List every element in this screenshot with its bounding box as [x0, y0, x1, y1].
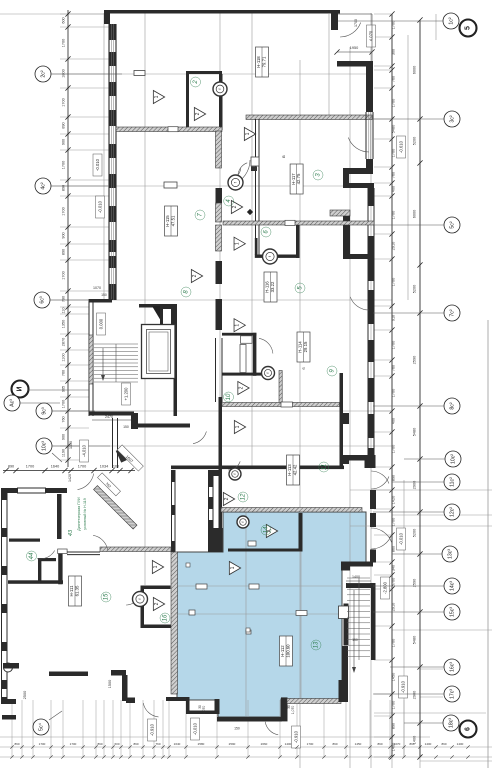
- svg-text:-2.800: -2.800: [382, 581, 387, 594]
- svg-text:47.51: 47.51: [171, 215, 176, 226]
- svg-text:42.42: 42.42: [293, 464, 298, 475]
- svg-text:1700: 1700: [26, 465, 34, 469]
- svg-text:1400: 1400: [457, 742, 464, 746]
- svg-text:-0.910: -0.910: [293, 730, 298, 743]
- svg-text:890: 890: [133, 742, 138, 746]
- svg-text:890: 890: [332, 742, 337, 746]
- svg-text:Н-115: Н-115: [165, 215, 170, 227]
- svg-text:29.15: 29.15: [303, 341, 308, 352]
- svg-text:890: 890: [409, 742, 414, 746]
- svg-text:150: 150: [234, 727, 240, 731]
- svg-text:Ac³: Ac³: [10, 399, 16, 407]
- svg-text:760: 760: [62, 370, 66, 376]
- svg-text:6000: 6000: [413, 66, 417, 74]
- svg-text:5: 5: [465, 26, 472, 30]
- svg-text:5c²: 5c²: [450, 221, 456, 228]
- svg-text:100.60: 100.60: [286, 644, 291, 658]
- svg-text:5200: 5200: [413, 285, 417, 293]
- svg-text:400: 400: [392, 418, 396, 424]
- svg-text:1700: 1700: [392, 278, 396, 286]
- svg-text:1700: 1700: [62, 98, 66, 106]
- svg-text:Н-117: Н-117: [291, 173, 296, 185]
- svg-text:14: 14: [264, 526, 270, 533]
- svg-text:12c²: 12c²: [450, 507, 456, 517]
- svg-text:1420: 1420: [392, 496, 396, 504]
- svg-text:890: 890: [392, 475, 396, 481]
- svg-text:-0.010: -0.010: [95, 158, 100, 171]
- svg-text:2660: 2660: [261, 742, 268, 746]
- svg-text:2590: 2590: [413, 356, 417, 364]
- svg-text:150: 150: [123, 425, 129, 429]
- svg-text:14c³: 14c³: [450, 581, 456, 591]
- svg-text:Н-112: Н-112: [280, 645, 285, 657]
- svg-text:16c³: 16c³: [450, 662, 456, 672]
- svg-text:16: 16: [163, 614, 169, 621]
- svg-text:61.35: 61.35: [75, 585, 80, 596]
- svg-text:1700: 1700: [392, 211, 396, 219]
- svg-text:5200: 5200: [413, 137, 417, 145]
- svg-text:1450: 1450: [392, 673, 396, 681]
- svg-text:2910: 2910: [392, 242, 396, 250]
- svg-text:1700: 1700: [392, 701, 396, 709]
- svg-text:9c³: 9c³: [42, 407, 48, 414]
- svg-text:10: 10: [226, 393, 232, 400]
- svg-text:-0.910: -0.910: [400, 680, 405, 693]
- svg-text:-0.010: -0.010: [398, 532, 403, 545]
- svg-text:1: 1: [235, 425, 241, 428]
- svg-text:10c³: 10c³: [42, 441, 48, 451]
- svg-text:1640: 1640: [174, 742, 181, 746]
- svg-text:760: 760: [155, 742, 160, 746]
- svg-text:150: 150: [352, 638, 358, 642]
- svg-text:890: 890: [8, 465, 14, 469]
- svg-text:-0.910: -0.910: [149, 723, 154, 736]
- svg-text:И: И: [17, 386, 24, 391]
- svg-text:10c²: 10c²: [451, 454, 457, 464]
- svg-text:1700: 1700: [392, 341, 396, 349]
- svg-text:5480: 5480: [413, 428, 417, 436]
- svg-text:760: 760: [392, 76, 396, 82]
- svg-text:300: 300: [392, 49, 396, 55]
- svg-text:1,070: 1,070: [291, 706, 295, 715]
- svg-text:1400: 1400: [425, 742, 432, 746]
- svg-text:900: 900: [62, 434, 66, 440]
- svg-text:1,070: 1,070: [202, 706, 206, 715]
- svg-text:6000: 6000: [413, 210, 417, 218]
- svg-text:150: 150: [101, 293, 107, 297]
- svg-text:1350: 1350: [62, 320, 66, 328]
- svg-text:1450: 1450: [355, 742, 362, 746]
- svg-text:6c³: 6c³: [40, 296, 46, 303]
- svg-text:3c²: 3c²: [450, 115, 456, 122]
- svg-text:5700: 5700: [392, 578, 396, 586]
- svg-text:1950: 1950: [350, 46, 358, 50]
- svg-text:1700: 1700: [78, 465, 86, 469]
- svg-text:2900: 2900: [413, 691, 417, 699]
- svg-text:1800: 1800: [62, 69, 66, 77]
- svg-text:1: 1: [154, 95, 160, 98]
- svg-text:110: 110: [62, 307, 66, 313]
- svg-text:2590: 2590: [229, 742, 236, 746]
- svg-text:910: 910: [392, 315, 396, 321]
- svg-text:2: 2: [192, 274, 198, 277]
- svg-text:2: 2: [232, 205, 238, 208]
- svg-text:+1.200: +1.200: [123, 387, 128, 401]
- svg-text:400: 400: [392, 186, 396, 192]
- svg-text:1400: 1400: [285, 742, 292, 746]
- svg-text:1190: 1190: [62, 449, 66, 457]
- svg-text:-0,010: -0,010: [192, 722, 197, 735]
- svg-text:79.71: 79.71: [262, 56, 267, 67]
- svg-text:1070: 1070: [93, 286, 101, 290]
- svg-text:-0.610: -0.610: [398, 140, 403, 153]
- svg-text:1640: 1640: [51, 465, 59, 469]
- svg-text:1700: 1700: [392, 445, 396, 453]
- svg-text:5c⁴: 5c⁴: [39, 723, 45, 731]
- svg-text:1700: 1700: [354, 19, 358, 27]
- svg-text:2500: 2500: [23, 691, 27, 699]
- svg-text:5480: 5480: [413, 636, 417, 644]
- svg-text:2910: 2910: [392, 603, 396, 611]
- svg-text:2: 2: [193, 80, 199, 85]
- svg-text:890: 890: [62, 122, 66, 128]
- svg-text:1500: 1500: [108, 680, 112, 688]
- svg-text:6: 6: [465, 727, 472, 731]
- svg-text:5480: 5480: [392, 125, 396, 133]
- svg-text:1: 1: [245, 132, 251, 135]
- svg-text:13: 13: [314, 641, 320, 648]
- svg-text:1700: 1700: [62, 39, 66, 47]
- svg-text:890: 890: [392, 723, 396, 729]
- svg-text:1: 1: [235, 324, 241, 327]
- svg-text:1700: 1700: [70, 742, 77, 746]
- svg-text:1700: 1700: [62, 271, 66, 279]
- svg-text:900: 900: [62, 232, 66, 238]
- svg-text:760: 760: [62, 416, 66, 422]
- svg-text:1: 1: [153, 565, 159, 568]
- svg-text:4.070: 4.070: [368, 30, 373, 41]
- svg-text:1034: 1034: [100, 465, 108, 469]
- svg-text:-4,010: -4,010: [81, 444, 86, 457]
- svg-text:1700: 1700: [392, 149, 396, 157]
- svg-text:890: 890: [377, 742, 382, 746]
- svg-text:1700: 1700: [62, 400, 66, 408]
- svg-text:2: 2: [195, 112, 201, 115]
- svg-text:890: 890: [14, 742, 19, 746]
- svg-text:1c²: 1c²: [449, 17, 455, 24]
- svg-text:790: 790: [62, 296, 66, 302]
- svg-text:17c³: 17c³: [450, 689, 456, 699]
- svg-text:760: 760: [392, 172, 396, 178]
- svg-text:Н-114: Н-114: [298, 341, 303, 353]
- svg-text:44: 44: [29, 552, 35, 559]
- svg-text:1100: 1100: [62, 353, 66, 361]
- svg-text:890: 890: [97, 742, 102, 746]
- svg-text:11: 11: [321, 464, 327, 470]
- svg-text:15: 15: [104, 593, 110, 600]
- svg-text:1700: 1700: [392, 99, 396, 107]
- svg-text:2580: 2580: [198, 742, 205, 746]
- svg-text:0.000: 0.000: [98, 318, 103, 329]
- svg-text:1400: 1400: [352, 575, 360, 579]
- svg-text:2c²: 2c²: [41, 70, 47, 77]
- svg-text:7c²: 7c²: [450, 309, 456, 316]
- svg-text:условный № Н-119: условный № Н-119: [83, 498, 87, 530]
- svg-text:2470: 2470: [105, 415, 113, 419]
- svg-text:43: 43: [68, 529, 74, 536]
- svg-text:1700: 1700: [392, 21, 396, 29]
- svg-text:760: 760: [392, 365, 396, 371]
- svg-text:1420: 1420: [68, 474, 72, 482]
- svg-text:1700: 1700: [392, 389, 396, 397]
- svg-text:1700: 1700: [307, 742, 314, 746]
- svg-text:5200: 5200: [413, 529, 417, 537]
- svg-text:Н-118: Н-118: [256, 56, 261, 68]
- svg-text:42.75: 42.75: [296, 173, 301, 184]
- svg-text:18c³: 18c³: [449, 718, 455, 728]
- svg-text:15c³: 15c³: [450, 607, 456, 617]
- svg-text:33.22: 33.22: [270, 281, 275, 292]
- svg-text:12: 12: [241, 493, 247, 500]
- svg-text:1700: 1700: [62, 161, 66, 169]
- svg-text:1070: 1070: [394, 742, 401, 746]
- svg-text:4c²: 4c²: [41, 182, 47, 189]
- svg-text:1700: 1700: [392, 518, 396, 526]
- svg-text:1700: 1700: [62, 207, 66, 215]
- svg-text:Н-111: Н-111: [69, 585, 74, 597]
- svg-text:11c²: 11c²: [450, 477, 456, 487]
- svg-text:340: 340: [392, 565, 396, 571]
- svg-text:1700: 1700: [392, 639, 396, 647]
- svg-text:600: 600: [62, 17, 66, 23]
- svg-text:890: 890: [441, 742, 446, 746]
- svg-text:1350: 1350: [69, 441, 73, 449]
- svg-text:-0.010: -0.010: [97, 200, 102, 213]
- svg-text:8c²: 8c²: [450, 402, 456, 409]
- svg-text:890: 890: [62, 249, 66, 255]
- svg-text:160: 160: [113, 465, 119, 469]
- svg-text:2: 2: [224, 497, 230, 500]
- svg-text:1: 1: [230, 566, 236, 569]
- svg-text:13c³: 13c³: [448, 549, 454, 559]
- svg-text:2: 2: [154, 602, 160, 605]
- svg-text:900: 900: [62, 139, 66, 145]
- svg-text:Н-113: Н-113: [287, 464, 292, 476]
- svg-text:1700: 1700: [39, 742, 46, 746]
- svg-text:965: 965: [62, 386, 66, 392]
- svg-text:1: 1: [235, 242, 241, 245]
- svg-text:Н-116: Н-116: [265, 281, 270, 293]
- svg-text:600: 600: [114, 742, 119, 746]
- svg-text:2: 2: [239, 386, 245, 389]
- svg-text:860: 860: [392, 546, 396, 552]
- svg-text:2870: 2870: [62, 338, 66, 346]
- svg-text:Диспетчерская ПУИ: Диспетчерская ПУИ: [77, 497, 81, 531]
